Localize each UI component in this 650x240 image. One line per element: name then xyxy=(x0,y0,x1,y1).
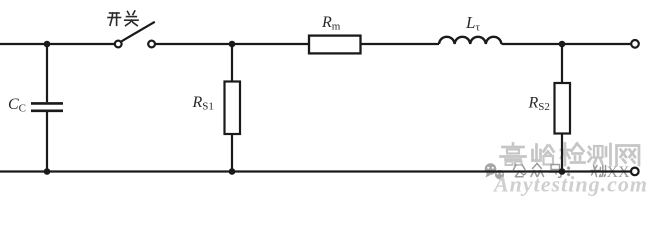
检 xyxy=(561,144,585,166)
resistor Rs2 xyxy=(555,83,571,134)
capacitor Cc plates xyxy=(31,103,63,110)
wire capacitor branch lower xyxy=(46,112,48,172)
wire top: Rm to inductor xyxy=(361,43,440,45)
wire top: inductor to right terminal xyxy=(502,43,632,45)
峪 xyxy=(533,145,554,165)
watermark wechat icon (two speech bubbles) xyxy=(485,163,505,181)
号 xyxy=(551,165,560,170)
众 xyxy=(533,164,538,169)
wire top: switch to Rm xyxy=(155,43,309,45)
开 xyxy=(110,12,120,14)
node junction dots xyxy=(44,41,566,175)
wire top-left: left edge to switch xyxy=(0,43,115,45)
inductor Lt (4 humps) xyxy=(439,37,501,44)
svg-text:Anytesting.com: Anytesting.com xyxy=(492,172,648,197)
terminal top-right xyxy=(631,40,639,48)
wire Rs1 branch upper xyxy=(231,44,233,82)
switch S 开关 (arm and contacts) xyxy=(115,22,155,48)
wire capacitor branch upper xyxy=(46,44,48,102)
node E (Rs1 bottom) xyxy=(229,168,236,175)
node D (cap bottom) xyxy=(44,168,51,175)
wire bottom rail xyxy=(0,170,631,172)
terminal bottom-right xyxy=(631,168,639,176)
node F (Rs2 bottom) xyxy=(559,168,566,175)
wire Rs1 branch lower xyxy=(231,134,233,172)
node B (Rs1 top) xyxy=(229,41,236,48)
嘉 xyxy=(501,144,526,166)
label 开关 (hand-drawn glyphs) xyxy=(108,11,138,26)
node C (Rs2 top) xyxy=(559,41,566,48)
关 xyxy=(128,12,130,15)
测 xyxy=(589,144,611,165)
watermark line 公众号：姚XX (hand-drawn approximation + text) xyxy=(514,164,569,178)
node A (cap top) xyxy=(44,41,51,48)
watermark logo text 嘉峪检测网 (hand-drawn approximation) xyxy=(501,144,640,166)
姚 xyxy=(594,165,597,177)
网 xyxy=(617,146,640,166)
公 xyxy=(514,165,517,170)
： xyxy=(567,168,570,175)
wire Rs2 branch upper xyxy=(561,44,563,83)
wire Rs2 branch lower xyxy=(561,134,563,172)
resistor Rm xyxy=(309,36,361,54)
resistor Rs1 xyxy=(225,82,241,135)
